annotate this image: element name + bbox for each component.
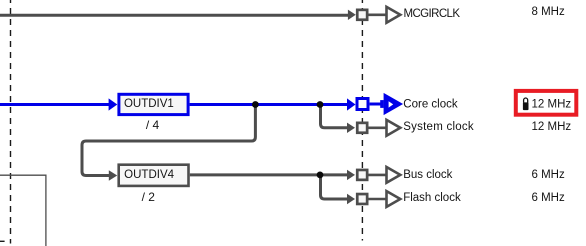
svg-text:Core clock: Core clock xyxy=(403,98,458,110)
wire MCGIRCLK xyxy=(0,14,349,17)
node square MCGIRCLK xyxy=(357,10,367,20)
wire gray OUTDIV4 to bus node xyxy=(190,173,348,176)
arrowhead into MCGIRCLK node xyxy=(348,10,356,20)
svg-text:6 MHz: 6 MHz xyxy=(532,169,565,181)
arrowhead into OUTDIV1 xyxy=(109,98,118,110)
wire stub system output xyxy=(368,127,386,130)
svg-text:OUTDIV1: OUTDIV1 xyxy=(124,98,174,110)
wire blue OUTDIV1 to core node xyxy=(190,103,348,106)
arrowhead into OUTDIV4 xyxy=(109,170,117,180)
svg-text:/ 2: / 2 xyxy=(142,190,156,204)
node square flash xyxy=(357,194,367,204)
wire stub flash output xyxy=(368,198,386,201)
locked frequency box (red) xyxy=(516,91,577,115)
output arrow core tail xyxy=(380,100,384,108)
clock domain boundary bottom dash xyxy=(0,240,5,242)
arrowhead into bus node xyxy=(347,170,355,180)
junction node C xyxy=(317,172,324,179)
output arrow flash xyxy=(387,191,401,207)
arrowhead into core node (blue) xyxy=(347,98,356,110)
output arrow bus xyxy=(387,167,401,183)
divider OUTDIV1 xyxy=(119,94,188,114)
output arrow system xyxy=(387,120,401,136)
wire stub MCGIRCLK output xyxy=(369,14,387,17)
output arrow MCGIRCLK xyxy=(387,7,401,23)
wire stub core output (blue) xyxy=(370,103,381,106)
output arrow core (filled blue) xyxy=(384,93,404,115)
svg-text:6 MHz: 6 MHz xyxy=(532,192,565,204)
divider OUTDIV4 xyxy=(119,165,189,186)
svg-text:Bus clock: Bus clock xyxy=(403,169,452,181)
svg-text:/ 4: / 4 xyxy=(146,118,160,132)
node square bus xyxy=(357,170,367,180)
lock icon xyxy=(524,98,528,103)
svg-text:OUTDIV4: OUTDIV4 xyxy=(124,169,174,181)
svg-text:8 MHz: 8 MHz xyxy=(532,6,565,18)
arrowhead into flash node xyxy=(347,194,355,204)
svg-text:MCGIRCLK: MCGIRCLK xyxy=(404,8,461,20)
svg-text:12 MHz: 12 MHz xyxy=(532,98,572,110)
junction node A xyxy=(252,101,259,108)
wire gray node B down to system row xyxy=(321,106,349,128)
arrowhead into system node xyxy=(347,123,355,133)
junction node B xyxy=(317,101,324,108)
node square core (blue) xyxy=(357,99,368,110)
wire blue into OUTDIV1 xyxy=(0,103,110,106)
svg-text:12 MHz: 12 MHz xyxy=(532,121,572,133)
wire gray node C down to flash row xyxy=(321,177,349,200)
peripheral block frame bottom-left xyxy=(0,175,46,246)
clock domain boundary left (dashed) xyxy=(10,0,12,244)
clock domain boundary right (dashed) xyxy=(361,0,363,241)
wire stub bus output xyxy=(368,174,386,177)
node square system xyxy=(357,123,367,133)
svg-text:System clock: System clock xyxy=(403,121,474,133)
wire gray node A down-left-down into OUTDIV4 xyxy=(82,106,255,176)
inner white arrow of core output xyxy=(389,101,394,107)
svg-text:Flash clock: Flash clock xyxy=(403,192,461,204)
